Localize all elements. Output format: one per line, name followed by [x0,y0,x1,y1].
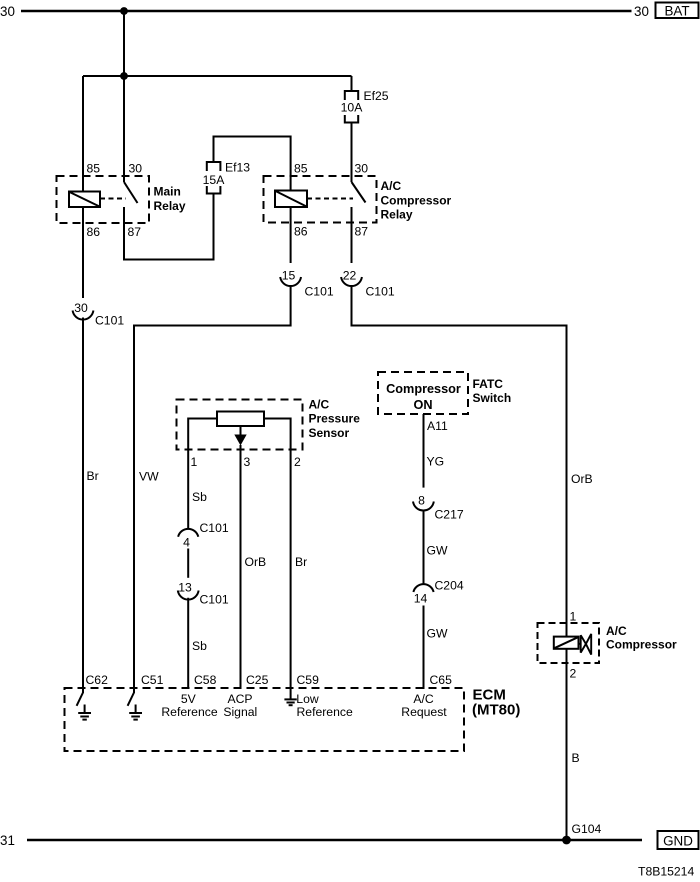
bus 31 bottom rail [27,839,642,841]
connector 22 C101 [341,277,362,286]
svg-text:Request: Request [401,705,447,719]
svg-text:C101: C101 [366,285,395,299]
svg-text:14: 14 [414,592,428,606]
wire main relay 86 down [82,207,84,298]
svg-text:VW: VW [139,470,159,484]
ground at C51 [128,693,134,706]
svg-text:2: 2 [570,667,577,681]
svg-text:Compressor: Compressor [381,194,452,208]
svg-text:YG: YG [427,455,445,469]
svg-text:ACP: ACP [227,692,252,706]
svg-text:A11: A11 [427,419,448,433]
svg-text:Sensor: Sensor [309,426,350,440]
svg-text:86: 86 [294,225,308,239]
fuse Ef13 [207,162,221,171]
svg-text:30: 30 [0,4,15,19]
svg-text:31: 31 [0,833,15,848]
A/C pressure sensor box [177,400,303,450]
svg-text:2: 2 [294,455,301,469]
wire to A/C compressor (OrB/B) [352,286,567,840]
connector 4 C101 (inverted) [178,529,198,537]
svg-text:C101: C101 [305,285,334,299]
svg-text:Low: Low [296,692,319,706]
svg-text:GND: GND [663,834,693,849]
svg-text:T8B15214: T8B15214 [638,865,694,879]
svg-text:5V: 5V [181,692,197,706]
svg-text:A/C: A/C [413,692,434,706]
wire Br [82,318,84,694]
svg-text:Pressure: Pressure [309,412,361,426]
wire A/C relay 87 down [351,207,353,263]
wire GW to ECM C65 [423,606,425,690]
svg-text:Reference: Reference [297,705,353,719]
svg-text:13: 13 [178,581,192,595]
wire to rail4 left [134,286,291,693]
A/C relay coil [275,191,307,208]
main relay switch blade [124,182,138,203]
wire GW [423,510,425,584]
wire to main relay 85 [82,76,84,192]
wire A/C relay 86 down [290,207,292,263]
svg-text:GW: GW [427,627,448,641]
svg-text:C204: C204 [435,579,464,593]
A/C relay switch blade [352,182,366,203]
wire pin2 [264,419,291,700]
svg-text:C51: C51 [141,673,164,687]
junction dot G104 [562,836,571,845]
connector 14 C204 (inverted) [413,584,433,592]
svg-text:ON: ON [413,398,432,412]
svg-text:15: 15 [282,269,296,283]
svg-text:10A: 10A [341,101,364,115]
svg-text:86: 86 [87,225,101,239]
svg-text:Relay: Relay [154,199,186,213]
svg-text:A/C: A/C [381,179,402,193]
connector 15 C101 [280,277,301,286]
svg-text:G104: G104 [572,822,602,836]
svg-text:BAT: BAT [664,4,689,19]
FATC switch box [378,372,468,414]
svg-text:B: B [572,751,580,765]
svg-text:C59: C59 [297,673,320,687]
svg-text:30: 30 [355,162,369,176]
svg-text:C25: C25 [246,673,269,687]
wire main relay 87 to fuse Ef13 [124,194,214,260]
svg-text:GW: GW [427,544,448,558]
svg-text:A/C: A/C [309,398,330,412]
svg-text:C58: C58 [194,673,217,687]
A/C compressor box [538,623,600,663]
svg-text:22: 22 [343,269,357,283]
svg-text:OrB: OrB [245,555,267,569]
wire fuse Ef25 to A/C relay 30 [351,123,353,183]
svg-text:15A: 15A [203,173,226,187]
svg-text:8: 8 [418,494,425,508]
svg-text:C101: C101 [95,314,124,328]
compressor clutch symbol [579,643,581,645]
svg-text:30: 30 [634,4,649,19]
svg-text:(MT80): (MT80) [472,702,520,719]
svg-text:1: 1 [191,455,198,469]
wire Sb to ECM C58 [187,598,189,689]
svg-text:30: 30 [129,162,143,176]
main relay actuator dashed [100,198,126,200]
svg-text:C101: C101 [200,521,229,535]
connector 13 C101 [178,591,199,600]
svg-text:30: 30 [74,301,88,315]
svg-text:C62: C62 [86,673,109,687]
wire top rail to rail2 [123,11,125,76]
svg-text:C65: C65 [430,673,453,687]
svg-text:87: 87 [128,225,142,239]
svg-text:Ef13: Ef13 [225,161,250,175]
svg-text:Ef25: Ef25 [364,89,389,103]
wire rail2 horizontal [83,75,352,77]
svg-text:4: 4 [183,536,190,550]
sensor resistor [217,412,264,427]
connector 8 C217 [413,502,434,511]
wire A11 [423,414,425,488]
svg-text:Br: Br [87,469,99,483]
svg-text:Br: Br [295,555,307,569]
main relay switch wire 30 [123,76,125,182]
svg-text:87: 87 [355,225,369,239]
A/C compressor relay box [264,176,377,223]
BAT terminal box [656,3,699,19]
svg-text:FATC: FATC [473,377,504,391]
wire fuse Ef13 to A/C relay 85 [214,137,291,193]
svg-text:Relay: Relay [381,208,413,222]
junction dot top rail [120,7,128,15]
wiper arrow pin3 [240,426,242,435]
svg-text:Compressor: Compressor [606,638,677,652]
svg-text:Switch: Switch [473,391,512,405]
ground at C59 [284,698,296,700]
fuse Ef25 [351,76,353,91]
svg-text:C217: C217 [435,508,464,522]
svg-text:85: 85 [87,162,101,176]
svg-text:A/C: A/C [606,624,627,638]
svg-text:85: 85 [294,162,308,176]
compressor coil [554,637,579,649]
svg-text:OrB: OrB [571,472,593,486]
wire [187,549,189,578]
svg-text:3: 3 [244,455,251,469]
main relay coil [69,192,100,208]
svg-text:Signal: Signal [223,705,257,719]
main relay box [57,176,150,223]
ground at C62 [77,693,83,706]
A/C relay actuator dashed [307,198,353,200]
svg-text:C101: C101 [200,593,229,607]
svg-text:Sb: Sb [192,490,207,504]
ECM box [65,688,465,751]
svg-text:Main: Main [154,185,181,199]
bus 30 top rail [21,10,632,12]
GND terminal box [658,831,699,849]
junction dot rail2 [120,72,128,80]
svg-text:Compressor: Compressor [386,382,461,396]
svg-text:Sb: Sb [192,639,207,653]
svg-text:1: 1 [570,610,577,624]
wire pin1 [188,419,217,529]
svg-text:Reference: Reference [161,705,217,719]
connector 30 C101 [73,311,94,320]
